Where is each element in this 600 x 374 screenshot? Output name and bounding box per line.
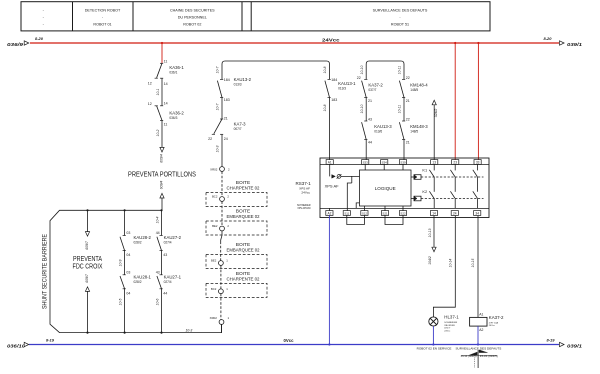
relay coil KA37-2: [470, 317, 487, 326]
terminal S22: [399, 211, 406, 216]
wire coil to 0V bus: [477, 326, 479, 344]
terminal 14: [430, 211, 437, 216]
wire KM148-4 to KM148-3: [403, 97, 405, 121]
svg-text:10-10: 10-10: [360, 105, 364, 114]
svg-text:S21: S21: [382, 211, 388, 215]
svg-text:BC2: BC2: [211, 287, 217, 291]
svg-text:10-10: 10-10: [360, 66, 364, 75]
svg-text:21: 21: [224, 117, 228, 121]
cable jog to BE2-1: [220, 242, 222, 261]
svg-text:KA37-2: KA37-2: [368, 82, 383, 87]
terminal 24: [451, 211, 458, 216]
wire A1 internal supply: [329, 164, 331, 176]
svg-text:S11: S11: [344, 211, 349, 215]
svg-text:10-11: 10-11: [398, 105, 402, 114]
svg-text:XR02: XR02: [210, 167, 218, 171]
terminal BE2 pin 1: [219, 261, 224, 266]
dashed link K1 contacts: [421, 176, 484, 178]
svg-text:10-11: 10-11: [398, 66, 402, 75]
svg-text:036/3: 036/3: [169, 116, 177, 120]
svg-text:SURVEILLANCE DES DEFAUTS: SURVEILLANCE DES DEFAUTS: [373, 8, 428, 12]
net +24Vcc bus: [30, 42, 559, 44]
svg-text:10-15: 10-15: [471, 259, 475, 268]
svg-text:KAU13-2: KAU13-2: [234, 77, 252, 82]
svg-text:BOITE: BOITE: [236, 180, 250, 186]
svg-text:KA36-2: KA36-2: [169, 110, 184, 115]
terminal A1: [326, 160, 333, 165]
jumper S11-S12: [347, 215, 365, 224]
svg-text:A2: A2: [327, 211, 331, 215]
svg-text:14: 14: [164, 101, 168, 105]
svg-text:LED T: LED T: [444, 328, 451, 330]
contact KAU28-2: [123, 235, 126, 237]
svg-text:10-1: 10-1: [156, 88, 160, 95]
svg-text:HL37-1: HL37-1: [444, 315, 459, 320]
wire KA36-1 to KA36-2: [161, 78, 163, 106]
terminal 34: [474, 211, 481, 216]
terminal BC2 pin 1: [219, 289, 224, 294]
svg-text:21: 21: [406, 99, 410, 103]
svg-text:10-4: 10-4: [155, 216, 159, 223]
wire bridge KA37-2 to KM148-4: [366, 61, 404, 79]
svg-text:24Vcc: 24Vcc: [489, 325, 496, 327]
contact KAU28-1: [123, 274, 126, 276]
svg-text:CHARPENTE 02: CHARPENTE 02: [227, 277, 260, 283]
wire stubs logic to S12 S21 S22: [363, 206, 365, 211]
svg-text:S39: S39: [400, 160, 406, 164]
svg-text:34: 34: [475, 211, 479, 215]
svg-text:024/2: 024/2: [434, 109, 438, 118]
svg-text:14: 14: [432, 211, 436, 215]
internal contacts 13-14: [433, 164, 435, 170]
svg-text:039/1: 039/1: [567, 42, 583, 47]
wire internal to S11 and A2: [351, 176, 353, 183]
jumper S21-S22: [385, 215, 403, 224]
svg-text:CHAINE DES SECURITES: CHAINE DES SECURITES: [170, 8, 215, 12]
svg-text:23: 23: [453, 160, 457, 164]
cable BE2-1 to BC2-1: [220, 265, 222, 289]
svg-text:148/5: 148/5: [410, 130, 418, 134]
svg-text:21: 21: [406, 141, 410, 145]
svg-text:8-20: 8-20: [544, 36, 553, 41]
svg-text:183: 183: [224, 98, 230, 102]
svg-text:SURVEILLANCE DES DEFAUTS: SURVEILLANCE DES DEFAUTS: [455, 346, 501, 350]
wire shunt top edge to KAU28-2: [124, 209, 126, 211]
svg-text:K1: K1: [422, 168, 427, 173]
svg-text:8-20: 8-20: [35, 36, 44, 41]
svg-text:KAU13-1: KAU13-1: [338, 81, 356, 86]
contact cross-reference KA37-2: [477, 350, 479, 368]
svg-text:BOITE: BOITE: [236, 209, 250, 215]
relay coil K1 (internal): [411, 176, 414, 178]
svg-text:10-13: 10-13: [428, 229, 432, 238]
contact KAU27-2: [160, 235, 163, 237]
wire shunt top edge to KAU27-2: [160, 209, 162, 211]
net 0Vcc bus: [29, 344, 559, 346]
wire KA7-3 to terminal XR02-2: [221, 134, 223, 166]
box BC2 (boite charpente 02) upper: [206, 193, 267, 207]
svg-text:24Vcc: 24Vcc: [444, 331, 451, 333]
svg-text:609/4: 609/4: [159, 181, 163, 190]
svg-text:03: 03: [126, 231, 130, 235]
svg-text:13: 13: [432, 160, 436, 164]
terminal BE2 pin 2: [220, 226, 225, 231]
wire KA37-2 to KAU13-3: [365, 97, 367, 121]
svg-text:013/3: 013/3: [338, 87, 346, 91]
terminal S33: [362, 160, 369, 165]
logic block LOGIQUE: [360, 170, 412, 206]
svg-text:KAU27-2: KAU27-2: [164, 235, 182, 240]
contact KA36-1 (changeover): [160, 62, 163, 64]
svg-text:037/7: 037/7: [368, 88, 376, 92]
svg-text:183: 183: [331, 98, 337, 102]
svg-text:KM148-4: KM148-4: [410, 82, 428, 87]
svg-text:43: 43: [163, 253, 167, 257]
svg-text:S34: S34: [382, 160, 388, 164]
svg-text:FDC CROIX: FDC CROIX: [73, 264, 103, 271]
svg-text:ROBOT 02 EN SERVICE: ROBOT 02 EN SERVICE: [417, 346, 452, 350]
svg-text:027/4: 027/4: [164, 280, 172, 284]
svg-text:24: 24: [453, 211, 457, 215]
svg-text:SCHNEIDER: SCHNEIDER: [297, 205, 311, 207]
svg-text:CHARPENTE 02: CHARPENTE 02: [227, 186, 260, 192]
svg-text:24Vcc: 24Vcc: [322, 37, 340, 42]
contact KAU13-2: [220, 78, 223, 80]
svg-text:43: 43: [156, 271, 160, 275]
svg-text:10-14: 10-14: [449, 259, 453, 268]
svg-text:KA37-2: KA37-2: [489, 315, 504, 320]
svg-text:DETECTION ROBOT: DETECTION ROBOT: [85, 8, 121, 12]
svg-text:KAU28-2: KAU28-2: [134, 235, 152, 240]
svg-text:039/1: 039/1: [567, 343, 583, 348]
terminal BC2 pin 2: [220, 197, 225, 202]
svg-text:BC2: BC2: [212, 195, 218, 199]
svg-text:EMBARQUEE 02: EMBARQUEE 02: [227, 248, 260, 254]
svg-text:04: 04: [126, 292, 130, 296]
contact KAU13-3: [364, 120, 367, 122]
wire 14 to off-page arrow 104/2: [433, 216, 435, 247]
svg-text:609/7: 609/7: [85, 274, 89, 283]
svg-text:24: 24: [224, 137, 228, 141]
svg-text:10-5: 10-5: [118, 298, 122, 305]
svg-text:8-19: 8-19: [46, 337, 55, 342]
svg-text:XPS AF5130: XPS AF5130: [297, 207, 311, 210]
svg-text:44: 44: [156, 231, 160, 235]
svg-text:04: 04: [126, 253, 130, 257]
svg-text:44: 44: [163, 292, 167, 296]
svg-text:22: 22: [406, 76, 410, 80]
wire KAU28-2 to KAU28-1: [124, 251, 126, 275]
wire stubs S33 S34 S39 to logic: [364, 164, 366, 170]
contact KA37-2 (NO aux): [364, 78, 367, 80]
contact KA36-2 (changeover): [155, 105, 158, 107]
safety relay U1 XPS AF outline: [320, 158, 489, 218]
svg-text:609/7: 609/7: [85, 241, 89, 250]
svg-text:EMBARQUEE 02: EMBARQUEE 02: [227, 214, 260, 220]
svg-text:22: 22: [406, 117, 410, 121]
svg-text:10-8: 10-8: [323, 66, 327, 73]
svg-text:184: 184: [331, 78, 337, 82]
wire A2 to 0V bus: [328, 215, 330, 344]
svg-text:11: 11: [164, 60, 168, 64]
svg-text:10-3: 10-3: [186, 328, 193, 332]
terminal 33: [474, 160, 481, 165]
terminal XR02 pin 1: [219, 320, 224, 325]
wire jog BE2-2 to BE2-1: [221, 231, 222, 242]
svg-text:XPS AF: XPS AF: [325, 184, 340, 189]
svg-text:XR02: XR02: [210, 316, 218, 320]
svg-text:104/2: 104/2: [428, 256, 432, 265]
wire 24V bus to terminal 23: [454, 42, 456, 44]
wire 24 to lamp HL37-1: [433, 216, 455, 317]
wire KAU27-2 to KAU27-1: [161, 251, 163, 275]
svg-text:21: 21: [368, 99, 372, 103]
svg-text:11: 11: [164, 123, 168, 127]
svg-text:SHUNT SECURITE BARRIERE: SHUNT SECURITE BARRIERE: [41, 234, 48, 309]
svg-text:007/7: 007/7: [234, 127, 242, 131]
svg-text:44: 44: [368, 141, 372, 145]
svg-text:013/6: 013/6: [374, 130, 382, 134]
internal contacts 33-34: [477, 164, 479, 170]
svg-text:027/4: 027/4: [164, 241, 172, 245]
contact KAU27-1: [160, 274, 163, 276]
svg-text:BOITE: BOITE: [236, 271, 250, 277]
wire arrow 609/7 to shunt bottom edge: [87, 291, 89, 332]
terminal 13: [431, 160, 438, 165]
terminal XR02 pin 2: [220, 167, 225, 172]
svg-text:148/5: 148/5: [410, 88, 418, 92]
svg-text:SCHNEIDER: SCHNEIDER: [444, 322, 457, 324]
box BE2 (boite embarquee 02) lower: [206, 255, 267, 269]
svg-text:LOGIQUE: LOGIQUE: [375, 186, 396, 191]
contact KM148-4: [402, 78, 405, 80]
svg-text:A1: A1: [479, 313, 483, 317]
svg-text:12: 12: [148, 82, 152, 86]
svg-text:KA36-1: KA36-1: [169, 65, 184, 70]
wire KM148-3 to S39: [403, 140, 405, 160]
terminal A2: [326, 211, 333, 216]
wire arrow to shunt frame top edge: [161, 198, 163, 210]
svg-text:KA7-3: KA7-3: [234, 122, 247, 127]
svg-text:A2: A2: [479, 328, 483, 332]
svg-text:036/10: 036/10: [7, 343, 26, 348]
svg-text:184: 184: [224, 78, 230, 82]
terminal S39: [399, 160, 406, 165]
lamp HL37-1: [429, 317, 438, 326]
svg-text:A1: A1: [328, 160, 332, 164]
svg-text:43: 43: [368, 117, 372, 121]
wire XR02-1 to shunt bottom edge: [221, 324, 223, 332]
cable BC2-2 to BE2-2: [221, 201, 223, 226]
svg-text:028/2: 028/2: [134, 280, 142, 284]
svg-text:ROBOT 01: ROBOT 01: [93, 23, 111, 27]
svg-text:RS37-1: RS37-1: [296, 181, 312, 186]
svg-text:10-7: 10-7: [216, 66, 220, 73]
svg-text:BOITE: BOITE: [236, 242, 250, 248]
box BC2 (boite charpente 02) lower: [206, 283, 267, 297]
title block: [21, 2, 490, 31]
wire KAU13-2 to KA7-3: [221, 97, 223, 119]
wire KAU27-1 to shunt bottom edge: [161, 289, 163, 333]
wire KAU13-3 to S33: [365, 140, 367, 160]
svg-text:22: 22: [357, 76, 361, 80]
svg-text:10-2: 10-2: [156, 129, 160, 136]
svg-text:609/4: 609/4: [159, 154, 163, 163]
svg-text:KAU28-1: KAU28-1: [134, 274, 152, 279]
svg-text:DU PERSONNEL: DU PERSONNEL: [178, 15, 207, 19]
relay coil K2 (internal): [411, 198, 414, 200]
wire KAU13-1 to A1: [329, 97, 331, 159]
svg-text:S12: S12: [362, 211, 368, 215]
svg-text:028/2: 028/2: [134, 241, 142, 245]
svg-text:PREVENTA PORTILLONS: PREVENTA PORTILLONS: [128, 171, 196, 178]
wire KA36-2 to off-page arrow 609/4: [161, 120, 163, 147]
wire KAU28-1 to shunt bottom edge: [124, 289, 126, 333]
internal contacts 23-24: [454, 164, 456, 170]
svg-text:KM148-3: KM148-3: [410, 124, 428, 129]
svg-text:10-8: 10-8: [323, 104, 327, 111]
svg-text:0Vcc: 0Vcc: [284, 338, 295, 343]
shunt frame outline: [50, 210, 222, 332]
off-page arrow down 609/7: [85, 232, 89, 237]
terminal 23: [452, 160, 459, 165]
svg-text:23-24 (024/5): 23-24 (024/5): [480, 356, 498, 358]
svg-text:BE2: BE2: [211, 259, 217, 263]
wire lamp to 0V bus: [432, 326, 434, 344]
svg-text:8-19: 8-19: [547, 337, 556, 342]
off-page arrow down 609/4: [160, 147, 164, 152]
box BE2 (boite embarquee 02) upper: [206, 221, 267, 235]
svg-text:013/3: 013/3: [234, 83, 242, 87]
wire 24V bus to KA36-1 pin 11: [161, 43, 163, 63]
svg-text:22: 22: [208, 137, 212, 141]
svg-text:BE2: BE2: [212, 224, 218, 228]
svg-text:10-3: 10-3: [216, 145, 220, 152]
svg-text:KAU27-1: KAU27-1: [164, 274, 182, 279]
wire 34 to coil KA37-2: [477, 216, 479, 318]
svg-text:13-14 (024/5): 13-14 (024/5): [461, 356, 477, 358]
wire 24V bus to terminal 33: [477, 42, 479, 44]
terminal S34: [381, 160, 388, 165]
svg-text:2 RT 10A: 2 RT 10A: [489, 321, 499, 324]
svg-text:03: 03: [126, 271, 130, 275]
contact KM148-3: [402, 120, 405, 122]
terminal S12: [361, 211, 368, 216]
cable BC2-1 to XR02-1: [220, 294, 222, 320]
svg-text:ROBOT 51: ROBOT 51: [391, 23, 409, 27]
svg-text:KAU13-3: KAU13-3: [374, 124, 392, 129]
svg-text:33: 33: [476, 160, 480, 164]
cable XR02-2 to BC2-2: [221, 172, 223, 197]
wire bridge KAU13-2 to KAU13-1: [222, 61, 330, 79]
svg-text:24Vcc: 24Vcc: [301, 190, 310, 194]
wire shunt top edge to arrow 609/7: [86, 209, 88, 211]
svg-text:036/9: 036/9: [7, 42, 24, 47]
contact KA7-3 (changeover): [220, 118, 223, 120]
off-page arrow up 024/2 to terminal 13: [432, 100, 436, 105]
svg-text:XB4 BVB3: XB4 BVB3: [444, 325, 455, 327]
svg-text:10-7: 10-7: [216, 103, 220, 110]
svg-text:12: 12: [148, 102, 152, 106]
svg-text:10-9: 10-9: [118, 259, 122, 266]
terminal S11: [343, 211, 350, 216]
svg-text:036/1: 036/1: [169, 70, 177, 74]
svg-text:PREVENTA: PREVENTA: [73, 256, 102, 263]
svg-text:14: 14: [164, 82, 168, 86]
svg-text:S22: S22: [400, 211, 406, 215]
svg-text:ROBOT 02: ROBOT 02: [183, 23, 201, 27]
svg-text:K2: K2: [422, 189, 427, 194]
svg-text:S33: S33: [363, 160, 369, 164]
terminal S21: [381, 211, 388, 216]
dashed link K2 contacts: [421, 198, 484, 200]
svg-text:10-6: 10-6: [155, 298, 159, 305]
